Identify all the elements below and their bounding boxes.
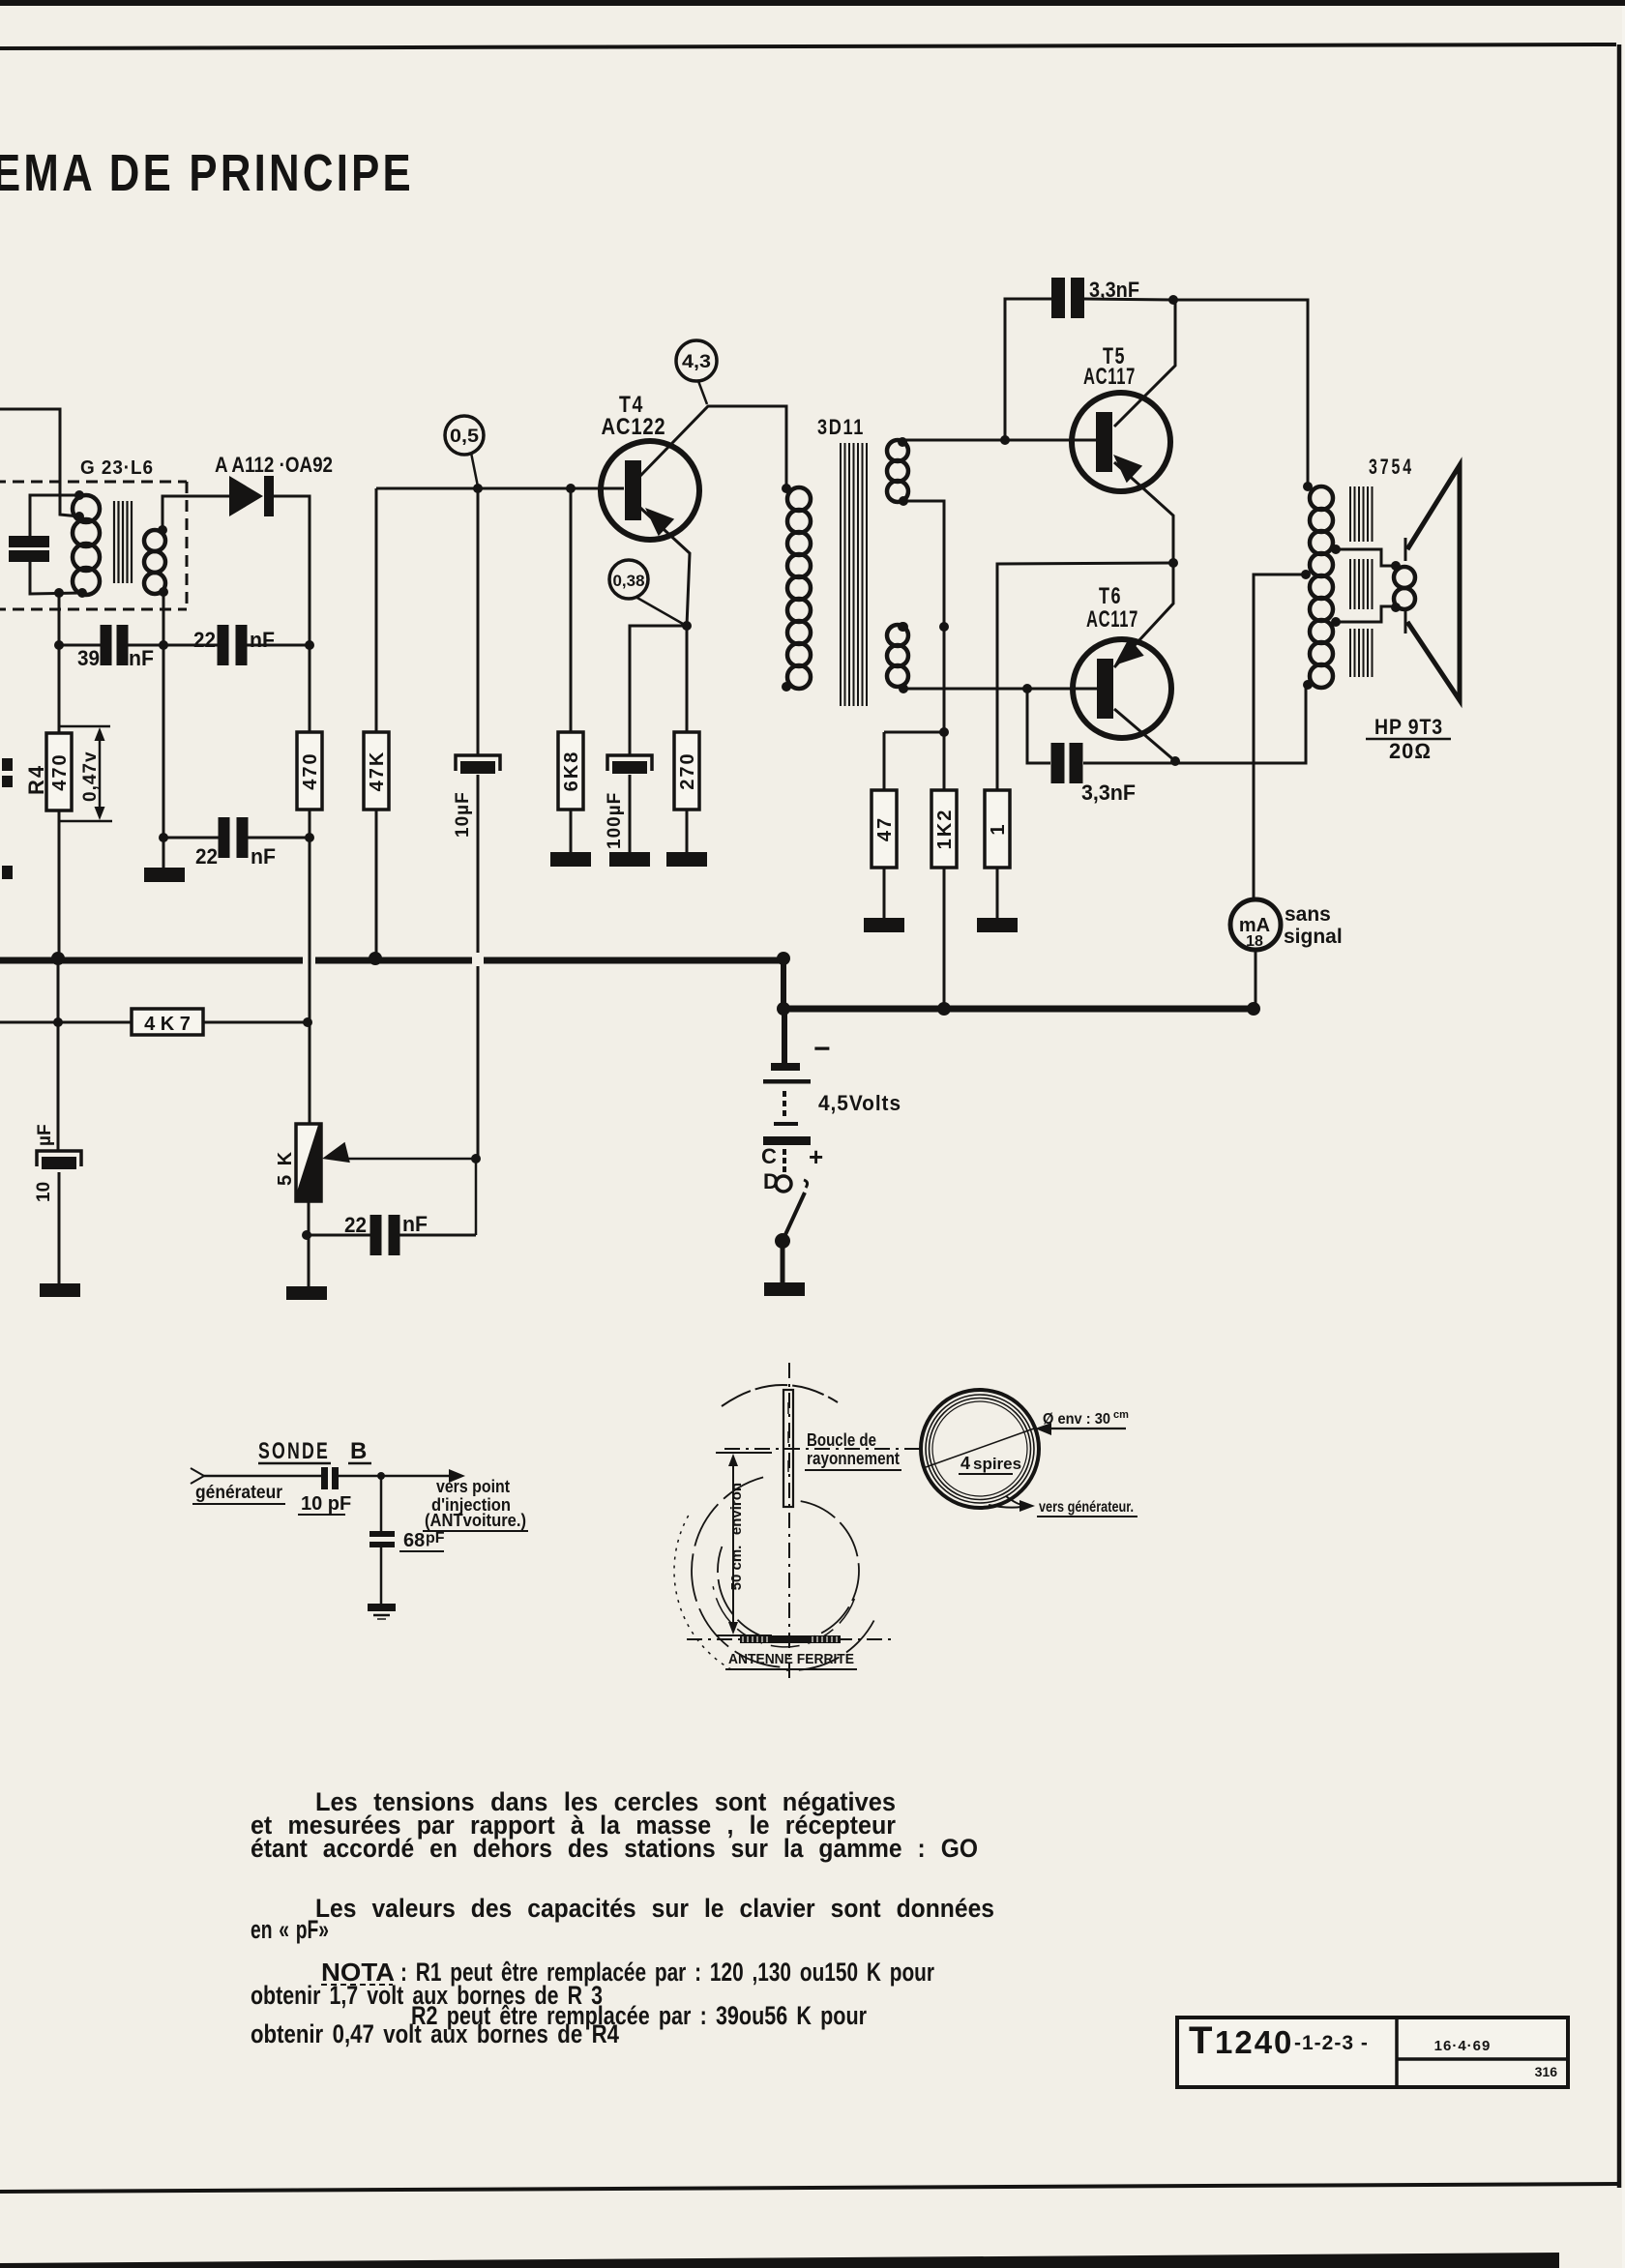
svg-text:-1-2-3 -: -1-2-3 - — [1294, 2032, 1369, 2054]
svg-text:AC122: AC122 — [602, 414, 666, 440]
svg-text:signal: signal — [1284, 926, 1343, 948]
svg-text:47: 47 — [874, 816, 896, 841]
svg-text:3,3nF: 3,3nF — [1089, 278, 1139, 302]
svg-text:nF: nF — [251, 844, 276, 869]
svg-text:sans: sans — [1285, 903, 1331, 926]
svg-text:4 K 7: 4 K 7 — [144, 1014, 191, 1035]
svg-text:nF: nF — [250, 628, 275, 652]
svg-text:4,5Volts: 4,5Volts — [818, 1091, 901, 1115]
svg-text:rayonnement: rayonnement — [807, 1449, 900, 1468]
svg-text:(ANTvoiture.): (ANTvoiture.) — [425, 1511, 526, 1530]
svg-text:obtenir 0,47 volt aux born: obtenir 0,47 volt aux bornes de R4 — [251, 2019, 619, 2048]
svg-text:EMA DE PRINCIPE: EMA DE PRINCIPE — [0, 144, 414, 202]
svg-text:AC117: AC117 — [1086, 606, 1138, 633]
svg-text:Boucle de: Boucle de — [807, 1430, 876, 1450]
svg-text:étant accordé en dehors: étant accordé en dehors des stations sur… — [251, 1834, 978, 1863]
svg-text:1: 1 — [988, 822, 1009, 835]
svg-text:G 23·L6: G 23·L6 — [80, 457, 154, 479]
svg-text:A A112 ·OA92: A A112 ·OA92 — [215, 453, 333, 477]
svg-text:16·4·69: 16·4·69 — [1434, 2038, 1492, 2054]
svg-text:4: 4 — [960, 1454, 970, 1473]
svg-text:AC117: AC117 — [1083, 364, 1136, 390]
svg-text:B: B — [350, 1438, 367, 1464]
svg-text:+: + — [809, 1142, 823, 1171]
svg-text:Ø env : 30: Ø env : 30 — [1043, 1411, 1110, 1428]
svg-text:22: 22 — [193, 628, 216, 652]
svg-text:39: 39 — [77, 646, 100, 670]
svg-text:270: 270 — [677, 751, 698, 789]
svg-text:vers générateur.: vers générateur. — [1039, 1499, 1134, 1516]
svg-text:470: 470 — [300, 751, 321, 789]
svg-text:6K8: 6K8 — [561, 751, 582, 792]
svg-text:68: 68 — [403, 1530, 425, 1551]
svg-text:3754: 3754 — [1369, 455, 1414, 479]
svg-text:3D11: 3D11 — [817, 415, 865, 439]
svg-text:spires: spires — [973, 1455, 1021, 1473]
svg-text:316: 316 — [1535, 2064, 1558, 2079]
svg-text:HP 9T3: HP 9T3 — [1374, 715, 1443, 739]
svg-text:3,3nF: 3,3nF — [1081, 781, 1136, 805]
svg-text:0,5: 0,5 — [450, 427, 479, 447]
svg-text:en « pF»: en « pF» — [251, 1915, 329, 1944]
svg-text:SONDE: SONDE — [258, 1438, 330, 1464]
svg-text:T: T — [1189, 2019, 1212, 2062]
svg-text:1240: 1240 — [1215, 2024, 1293, 2060]
svg-text:R4: R4 — [24, 764, 48, 795]
svg-text:50 cm.: 50 cm. — [728, 1546, 745, 1591]
svg-text:cm: cm — [1113, 1409, 1129, 1421]
svg-text:22: 22 — [344, 1213, 367, 1237]
svg-text:ANTENNE FERRITE: ANTENNE FERRITE — [728, 1651, 854, 1667]
svg-text:10µF: 10µF — [453, 791, 473, 838]
svg-text:T6: T6 — [1099, 583, 1122, 609]
svg-text:10 pF: 10 pF — [301, 1493, 351, 1515]
svg-text:nF: nF — [402, 1212, 428, 1236]
svg-text:47K: 47K — [367, 751, 388, 792]
svg-text:1K2: 1K2 — [934, 809, 956, 850]
svg-text:18: 18 — [1246, 933, 1263, 950]
svg-text:20Ω: 20Ω — [1389, 739, 1432, 763]
svg-text:environ: environ — [728, 1483, 745, 1535]
svg-text:4,3: 4,3 — [682, 352, 711, 372]
svg-text:22: 22 — [195, 844, 218, 869]
svg-text:Les valeurs des capacités: Les valeurs des capacités sur le clavier… — [315, 1894, 994, 1923]
svg-text:100µF: 100µF — [605, 792, 625, 849]
svg-text:10: 10 — [34, 1182, 54, 1202]
svg-text:470: 470 — [49, 752, 71, 790]
svg-text:générateur: générateur — [195, 1483, 283, 1503]
svg-text:pF: pF — [426, 1530, 445, 1546]
svg-text:0,47v: 0,47v — [80, 751, 101, 802]
svg-text:C: C — [761, 1144, 777, 1168]
svg-text:5 K: 5 K — [275, 1150, 296, 1186]
svg-text:vers point: vers point — [436, 1477, 510, 1496]
svg-text:−: − — [813, 1033, 831, 1065]
svg-text:0,38: 0,38 — [613, 572, 645, 590]
svg-text:nF: nF — [129, 646, 154, 670]
svg-text:µF: µF — [35, 1124, 55, 1146]
